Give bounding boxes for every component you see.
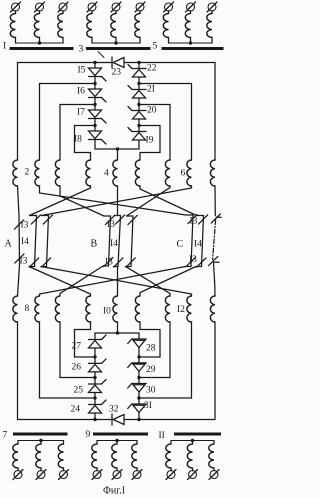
wire diagonal C col1 to coil 39.5 (long) (40, 267, 186, 297)
wire 17.5 through group A col1 (18, 186, 20, 296)
node lower center (116, 331, 119, 334)
leader line below bar 3 (98, 52, 104, 58)
wire diagonal 39.5 to C col1 (40, 186, 187, 215)
wire diagonal 60 to B col1 (60, 186, 104, 216)
svg-text:I6: I6 (77, 87, 85, 97)
node (137, 103, 140, 106)
contact C col2 (196, 215, 208, 267)
wire top bus y62.5 (18, 62, 216, 64)
wire 191.5 to node y398 (139, 322, 192, 398)
node (93, 103, 96, 106)
contact A col2 (29, 215, 41, 267)
wire diagonal B col1 to coil 60 (60, 266, 103, 296)
transformer 11 (bottom-right) (166, 433, 221, 480)
svg-text:22: 22 (147, 64, 157, 74)
transformer 9 (bottom-middle) (92, 433, 148, 480)
svg-text:9: 9 (86, 430, 91, 440)
svg-text:I4: I4 (21, 237, 29, 247)
svg-text:3I: 3I (144, 401, 152, 411)
svg-text:4: 4 (104, 169, 109, 179)
transformer 7 (bottom-left) (13, 433, 69, 480)
wire diagonal 191.5 to A col3 (long) (42, 186, 192, 216)
wire diagonal B col3 to coil 170 (126, 267, 171, 297)
contact B col2 (114, 215, 125, 296)
thyristor I6 (left chain) (89, 84, 107, 105)
wire right outer down (214, 322, 216, 420)
wire 215 to C col3 (214, 186, 216, 216)
node left chain bottom (93, 418, 96, 421)
wire frame right x170 (139, 105, 170, 161)
node (93, 376, 96, 379)
wire jog left to coil 90 (75, 126, 96, 161)
svg-text:I7: I7 (77, 108, 85, 118)
thyristor 26 (lower-left chain) (89, 357, 107, 378)
svg-text:I3: I3 (20, 257, 28, 267)
wire left outer 17.5 down (17, 322, 19, 420)
svg-text:I2: I2 (177, 305, 185, 315)
wire diagonal 170 to B col3 (127, 186, 171, 216)
wire bottom of top chains (95, 146, 139, 160)
thyristor I7 (left chain) (89, 105, 107, 126)
node (137, 82, 140, 85)
svg-text:28: 28 (146, 344, 156, 354)
node (93, 124, 96, 127)
svg-text:I3: I3 (21, 221, 29, 231)
diode 23 (112, 57, 124, 68)
thyristor 22 (right chain) (128, 63, 146, 84)
svg-text:23: 23 (112, 68, 122, 78)
node (137, 396, 140, 399)
thyristor I5 (left chain) (89, 63, 107, 84)
svg-text:27: 27 (72, 342, 82, 352)
wire frame right outer x215 (214, 63, 216, 161)
wire jog coil 140 to node y357 (139, 322, 160, 357)
wire diagonal 90.5 to A col2 (30, 186, 91, 216)
svg-text:I3: I3 (107, 220, 115, 230)
svg-text:32: 32 (109, 405, 119, 415)
diode 32 (112, 414, 124, 425)
wire lower chains top bus (95, 332, 139, 334)
wire jog right to coil 140 (139, 126, 160, 161)
contact A col3 (41, 215, 53, 267)
thyristor 27 (lower-left chain) (89, 333, 107, 357)
transformer 3 (top-middle) (86, 2, 151, 50)
svg-text:3: 3 (79, 45, 84, 55)
wire frame left x60 (60, 105, 95, 161)
svg-text:2I: 2I (147, 85, 155, 95)
node right chain bottom (137, 418, 140, 421)
svg-text:6: 6 (181, 169, 186, 179)
wire diagonal A col2 to coil 90.5 (29, 267, 91, 297)
thyristor 28 (lower-right chain) (128, 333, 147, 357)
wire 170 to node y377.5 (139, 322, 170, 378)
contact C col1 (186, 214, 198, 266)
svg-text:I8: I8 (74, 135, 82, 145)
svg-text:25: 25 (74, 386, 84, 396)
transformer 1 (top-left) (10, 2, 74, 50)
transformer 5 (top-right) (162, 2, 224, 50)
wire 60 to node y377.5 (60, 322, 95, 378)
node (137, 124, 140, 127)
svg-text:B: B (91, 239, 98, 250)
svg-text:I4: I4 (110, 239, 118, 249)
contact C col3 (dash-dot) (209, 214, 222, 296)
thyristor 2I (right chain) (128, 84, 146, 105)
wire diagonal 140 to C col2 (140, 186, 197, 216)
svg-text:II: II (159, 431, 165, 441)
svg-text:I: I (3, 42, 6, 52)
svg-text:7: 7 (3, 431, 8, 441)
svg-text:26: 26 (72, 363, 82, 373)
node (137, 355, 140, 358)
thyristor 3I (lower-right chain) (128, 398, 147, 420)
thyristor 30 (lower-right chain) (128, 378, 147, 399)
thyristor 24 (lower-left chain) (89, 398, 107, 420)
wire 117.5 to B col2 (117, 186, 119, 216)
wire frame left outer x17.5 (17, 63, 19, 161)
node (93, 396, 96, 399)
svg-text:Фиг.I: Фиг.I (103, 486, 125, 497)
wire jog coil 90.5 to node y357 (75, 322, 96, 357)
node center top chains bottom (116, 147, 119, 150)
node (93, 82, 96, 85)
svg-text:I3: I3 (190, 217, 198, 227)
svg-text:I0: I0 (103, 307, 111, 317)
node left chain top (93, 61, 96, 64)
winding row 8-10-12 (13, 296, 215, 322)
svg-text:30: 30 (146, 386, 156, 396)
wire 39.5 to node y398 (40, 322, 96, 398)
node (93, 355, 96, 358)
thyristor I8 (left chain) (89, 126, 107, 147)
node right chain top (137, 61, 140, 64)
svg-text:29: 29 (146, 365, 156, 375)
svg-text:8: 8 (25, 304, 30, 314)
thyristor I9 (right chain) (128, 126, 146, 147)
thyristor 29 (lower-right chain) (128, 357, 147, 378)
svg-text:C: C (177, 239, 184, 250)
wire 117.5 to lower chains top (117, 322, 119, 333)
svg-text:A: A (5, 239, 13, 250)
wire frame left x39.5 (40, 84, 96, 161)
svg-text:I3: I3 (105, 258, 113, 268)
wire frame right x191.5 (139, 84, 192, 161)
contact B col1 (103, 215, 115, 266)
thyristor 20 (right chain) (128, 105, 146, 126)
svg-text:24: 24 (71, 405, 81, 415)
svg-text:2: 2 (25, 168, 30, 178)
node (137, 376, 140, 379)
svg-text:5: 5 (153, 42, 158, 52)
svg-text:I5: I5 (78, 66, 86, 76)
contact B col3 (126, 215, 138, 267)
wire diagonal C col2 to coil 140 (140, 267, 196, 297)
wire diagonal A col3 to coil 191.5 (long) (41, 267, 192, 297)
svg-text:I4: I4 (194, 240, 202, 250)
svg-text:20: 20 (147, 106, 157, 116)
winding row 2-4-6 (13, 160, 215, 186)
svg-text:I3: I3 (189, 255, 197, 265)
wire bottom bus y419.5 (18, 419, 216, 421)
contact A col1 ticks (15, 220, 25, 263)
svg-text:I9: I9 (146, 136, 154, 146)
thyristor 25 (lower-left chain) (89, 378, 107, 399)
